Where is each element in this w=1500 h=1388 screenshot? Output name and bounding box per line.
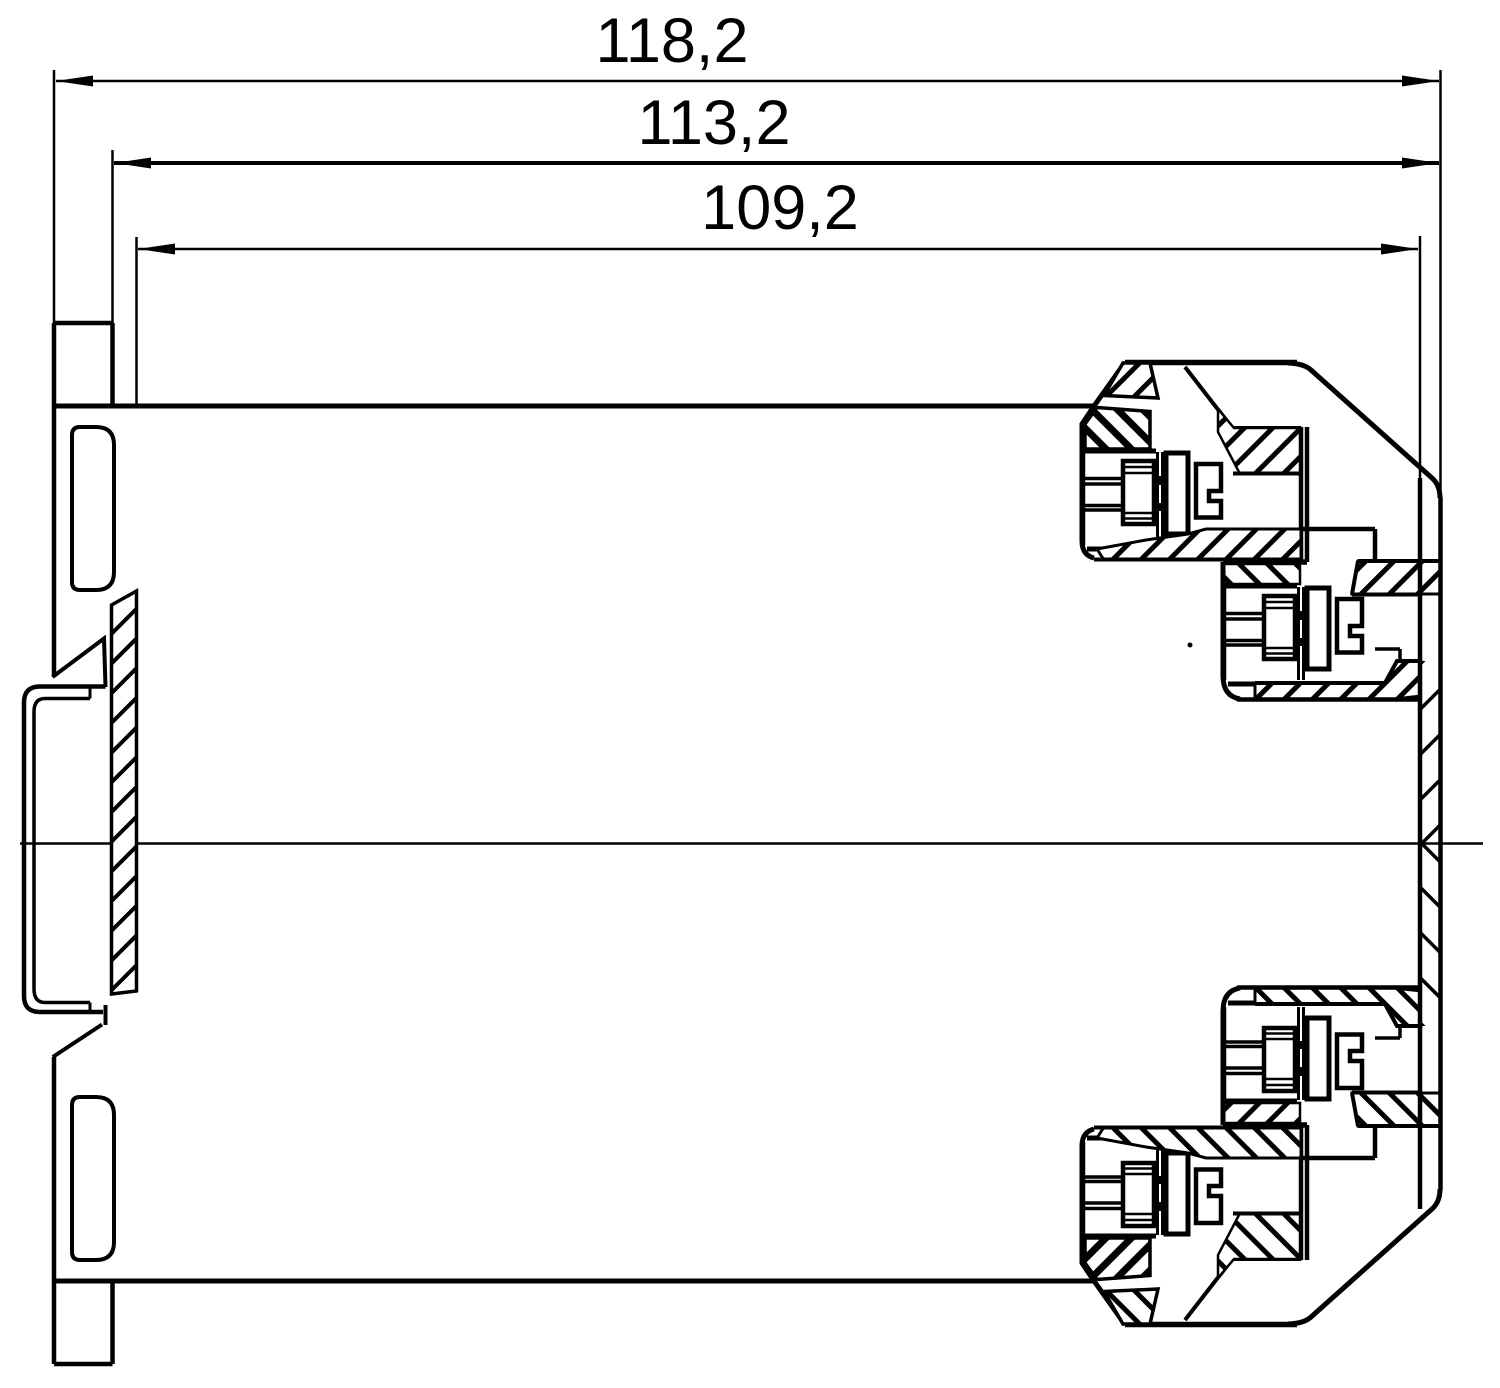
svg-text:118,2: 118,2: [596, 6, 749, 76]
svg-text:113,2: 113,2: [638, 88, 791, 158]
svg-text:109,2: 109,2: [701, 173, 859, 243]
